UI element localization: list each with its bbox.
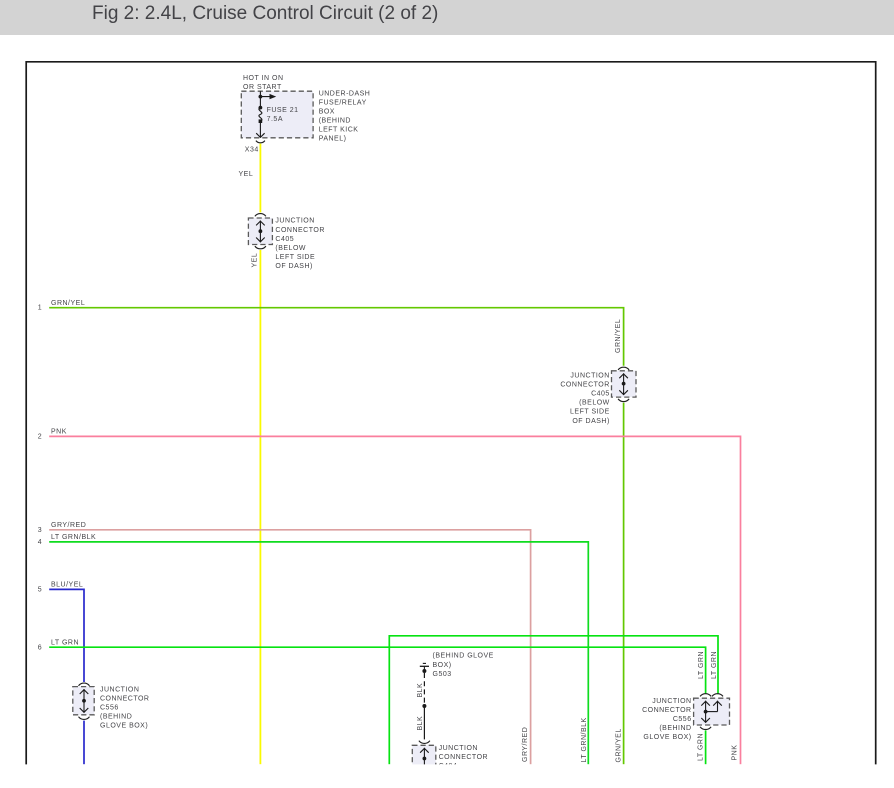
- svg-text:Fig 2: 2.4L, Cruise Control Ci: Fig 2: 2.4L, Cruise Control Circuit (2 o…: [92, 3, 438, 24]
- svg-text:GRY/RED: GRY/RED: [51, 522, 86, 529]
- svg-text:LEFT SIDE: LEFT SIDE: [275, 254, 315, 261]
- wire: feed inside fuse box: [259, 91, 261, 107]
- svg-text:G503: G503: [433, 671, 452, 678]
- junction connector C556 (right): [700, 694, 711, 697]
- svg-text:HOT IN ON: HOT IN ON: [243, 75, 284, 82]
- svg-text:(BEHIND: (BEHIND: [100, 714, 132, 721]
- svg-text:BLK: BLK: [417, 716, 424, 731]
- svg-text:CONNECTOR: CONNECTOR: [275, 227, 324, 234]
- svg-text:JUNCTION: JUNCTION: [652, 698, 691, 705]
- arrow to other circuit: [260, 96, 270, 98]
- wire YEL (C405 down, clipped at bottom): [259, 250, 261, 764]
- junction connector C556 (left): [79, 683, 90, 686]
- wire LT GRN (6): [49, 647, 705, 694]
- svg-text:FUSE 21: FUSE 21: [267, 107, 299, 114]
- svg-text:(BEHIND: (BEHIND: [659, 725, 691, 732]
- svg-text:BOX): BOX): [433, 662, 452, 669]
- svg-text:2: 2: [38, 433, 42, 440]
- svg-text:LEFT KICK: LEFT KICK: [319, 127, 359, 134]
- wire BLU/YEL (5): [49, 589, 84, 682]
- svg-text:PNK: PNK: [732, 745, 739, 761]
- svg-text:5: 5: [38, 587, 42, 594]
- svg-text:FUSE/RELAY: FUSE/RELAY: [319, 99, 367, 106]
- svg-text:LT GRN: LT GRN: [698, 651, 705, 679]
- svg-text:YEL: YEL: [252, 253, 259, 268]
- wire PNK (2): [49, 436, 740, 764]
- svg-text:X34: X34: [245, 147, 259, 154]
- svg-text:OF DASH): OF DASH): [275, 263, 312, 270]
- svg-text:C404: C404: [439, 763, 458, 770]
- svg-text:GLOVE BOX): GLOVE BOX): [100, 723, 148, 730]
- svg-text:UNDER-DASH: UNDER-DASH: [319, 90, 371, 97]
- svg-text:1: 1: [38, 305, 42, 312]
- svg-text:GRN/YEL: GRN/YEL: [616, 728, 623, 762]
- svg-text:(BELOW: (BELOW: [579, 400, 610, 407]
- junction connector C404: [419, 741, 430, 744]
- svg-text:C556: C556: [673, 716, 692, 723]
- svg-text:LT GRN: LT GRN: [51, 639, 79, 646]
- wire LT GRN/BLK (4): [49, 542, 588, 764]
- svg-text:CONNECTOR: CONNECTOR: [100, 695, 149, 702]
- svg-text:BOX: BOX: [319, 108, 335, 115]
- wire LT GRN (below C556 right): [705, 730, 707, 764]
- svg-text:BLU/YEL: BLU/YEL: [51, 582, 83, 589]
- svg-text:LT GRN: LT GRN: [711, 651, 718, 679]
- svg-text:C556: C556: [100, 704, 119, 711]
- wire BLU/YEL (below C556): [83, 721, 85, 765]
- svg-text:6: 6: [38, 644, 42, 651]
- wire YEL (fuse to C405): [259, 144, 261, 213]
- svg-text:PANEL): PANEL): [319, 136, 347, 143]
- junction connector C405 (right): [618, 367, 629, 370]
- svg-text:LT GRN: LT GRN: [698, 733, 705, 761]
- svg-text:(BEHIND GLOVE: (BEHIND GLOVE: [433, 653, 494, 660]
- svg-text:BLK: BLK: [417, 683, 424, 698]
- under-dash fuse/relay box: [241, 91, 313, 138]
- junction dot: [422, 704, 426, 708]
- svg-text:GRN/YEL: GRN/YEL: [51, 300, 85, 307]
- svg-text:7.5A: 7.5A: [267, 116, 283, 123]
- svg-text:C405: C405: [591, 391, 610, 398]
- fuse F21: [259, 106, 263, 110]
- svg-text:JUNCTION: JUNCTION: [439, 745, 478, 752]
- svg-text:CONNECTOR: CONNECTOR: [439, 754, 488, 761]
- down arrow to X34: [259, 121, 261, 137]
- wire GRN/YEL (1): [49, 308, 623, 366]
- svg-text:(BEHIND: (BEHIND: [319, 118, 351, 125]
- svg-text:OR START: OR START: [243, 84, 282, 91]
- svg-text:OF DASH): OF DASH): [572, 418, 609, 425]
- svg-text:CONNECTOR: CONNECTOR: [560, 382, 609, 389]
- svg-text:(BELOW: (BELOW: [275, 245, 306, 252]
- connector X34: [256, 141, 265, 143]
- wire BLK (solid): [423, 706, 425, 739]
- wire GRY/RED (3): [49, 530, 530, 765]
- svg-text:PNK: PNK: [51, 429, 67, 436]
- svg-text:JUNCTION: JUNCTION: [100, 686, 139, 693]
- svg-text:LEFT SIDE: LEFT SIDE: [570, 409, 610, 416]
- ground G503: [423, 662, 426, 664]
- svg-text:YEL: YEL: [239, 171, 254, 178]
- svg-text:C405: C405: [275, 236, 294, 243]
- wire BLK (dashed): [423, 673, 425, 704]
- svg-text:GLOVE BOX): GLOVE BOX): [643, 734, 691, 741]
- svg-text:LT GRN/BLK: LT GRN/BLK: [581, 717, 588, 762]
- svg-text:JUNCTION: JUNCTION: [275, 218, 314, 225]
- svg-text:CONNECTOR: CONNECTOR: [642, 707, 691, 714]
- junction dot: [259, 95, 263, 99]
- title bar: [0, 0, 894, 35]
- svg-text:LT GRN/BLK: LT GRN/BLK: [51, 534, 96, 541]
- svg-text:GRN/YEL: GRN/YEL: [615, 319, 622, 353]
- wire LT GRN branch rectangle: [389, 636, 718, 765]
- svg-text:3: 3: [38, 527, 42, 534]
- svg-text:4: 4: [38, 539, 42, 546]
- junction connector C405: [255, 214, 266, 217]
- svg-text:GRY/RED: GRY/RED: [522, 727, 529, 762]
- wire GRN/YEL (down from C405 right): [623, 403, 625, 765]
- svg-text:JUNCTION: JUNCTION: [570, 373, 609, 380]
